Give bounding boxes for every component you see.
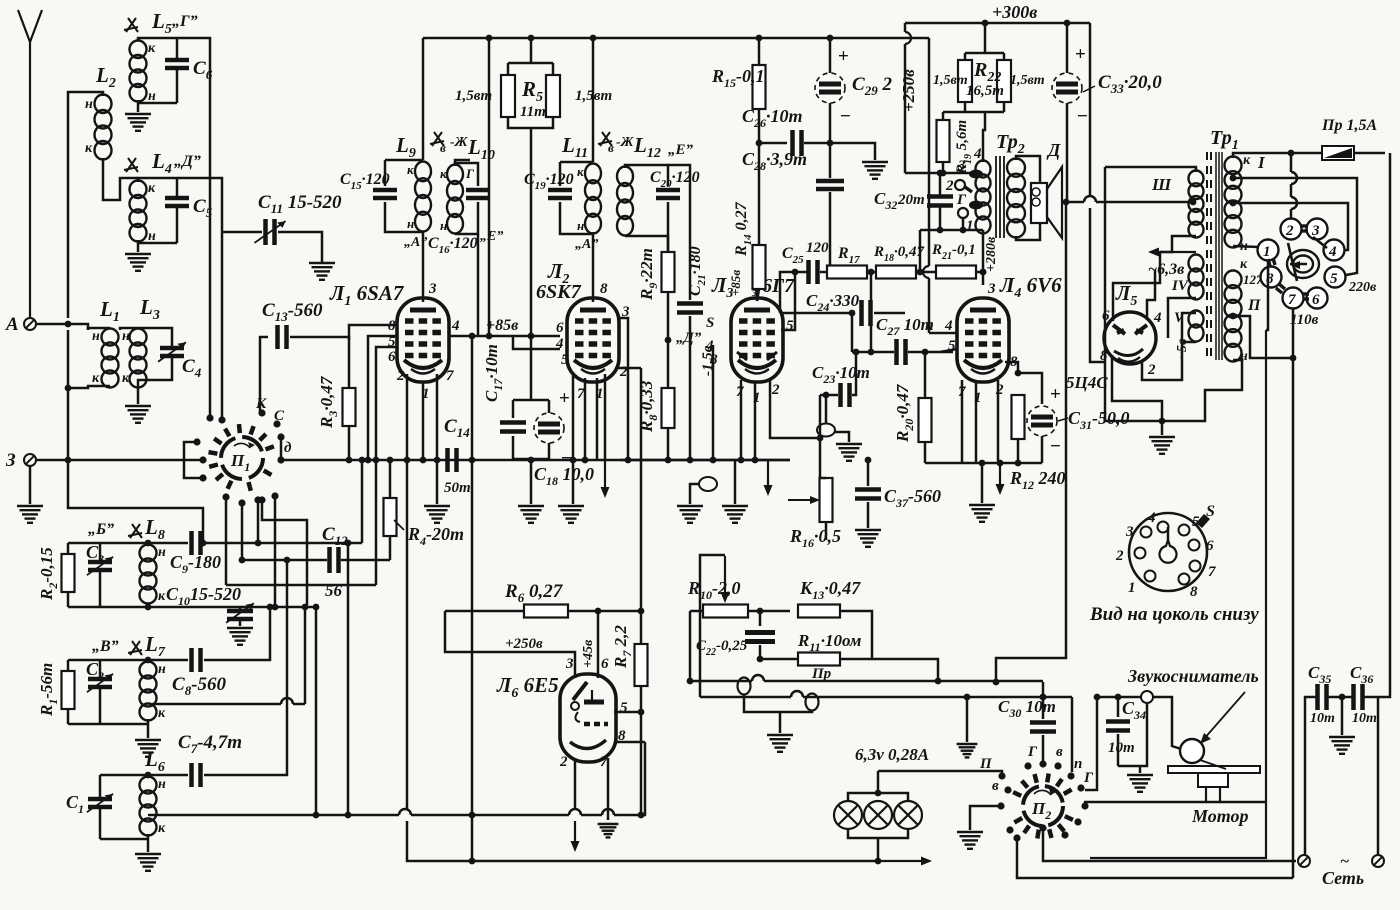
capacitor C25 [809, 260, 818, 284]
capacitor C17 [500, 423, 526, 432]
pickup terminal [1141, 691, 1153, 703]
IF2 left tank [560, 161, 593, 164]
hop on bus 681 [752, 675, 764, 681]
inductor L9 [415, 162, 431, 232]
inductor L11 [585, 164, 601, 234]
capacitor C32 [939, 173, 942, 197]
svg-text:1,5вт: 1,5вт [455, 88, 492, 104]
wire L10 top to AVC [455, 160, 470, 163]
wire R20 bottom [924, 442, 927, 463]
wire R14 to Л3 plate pin [757, 289, 759, 301]
svg-text:к: к [158, 706, 166, 721]
node C10 rail [272, 604, 279, 611]
wire L12 top to C21 [668, 165, 690, 252]
capacitor C15 [373, 190, 397, 198]
wire Л5 pin8 [1112, 355, 1162, 418]
wire lamps stem [877, 771, 880, 793]
tube Л2 6SK7 [567, 298, 619, 382]
wire Л2 pin3 right [617, 318, 628, 460]
wire top rail В [68, 659, 188, 662]
svg-text:4: 4 [973, 146, 982, 162]
wire C18 bottom [548, 443, 551, 459]
svg-text:4: 4 [451, 318, 460, 334]
svg-text:3: 3 [1125, 524, 1134, 540]
wire L7 tap riser [304, 607, 307, 704]
ground L6 [135, 854, 161, 871]
svg-text:Ш: Ш [1151, 175, 1172, 194]
svg-text:к: к [148, 41, 156, 56]
ground Л2 cathode [558, 506, 584, 523]
node L8 top [145, 540, 152, 547]
svg-text:1,5вт: 1,5вт [1010, 73, 1045, 88]
svg-text:„Е”: „Е” [480, 229, 503, 244]
svg-text:в: в [1056, 744, 1063, 760]
wire C12 right [341, 559, 390, 562]
tube Л3 diode plates [737, 352, 777, 360]
wire Л3 pin5 riser [781, 272, 795, 330]
svg-text:Л1 6SА7: Л1 6SА7 [329, 281, 405, 309]
wire C21 down [689, 316, 692, 460]
capacitor C6 [176, 38, 179, 58]
П1 contact dots [193, 409, 284, 506]
wire C11 right [278, 232, 322, 262]
jack on C23 [817, 424, 835, 437]
svg-text:1,5вт: 1,5вт [933, 73, 968, 88]
wire R16 top [820, 438, 826, 478]
inductor L5 [130, 41, 147, 102]
wire III bottom [1160, 236, 1196, 252]
variable capacitor C2 [99, 660, 102, 677]
wire winding I tap y203 [1233, 203, 1348, 250]
ground Л3 [722, 506, 748, 523]
ground 6E5 [598, 824, 619, 837]
svg-text:п: п [1074, 756, 1082, 772]
capacitor C19 [548, 190, 572, 198]
svg-text:7: 7 [446, 368, 454, 384]
svg-text:5: 5 [620, 700, 628, 716]
svg-text:1,5вт: 1,5вт [575, 88, 612, 104]
wire motor feed [1084, 801, 1266, 804]
inductor L10 [447, 165, 463, 234]
node A junction [65, 321, 72, 328]
svg-text:20т: 20т [897, 192, 925, 208]
wire З to ground [29, 466, 32, 504]
wire C27 rail [852, 351, 894, 354]
wire L10 down [477, 234, 480, 336]
svg-text:Сеть: Сеть [1322, 868, 1364, 888]
wire winding I tap y178 [1233, 178, 1357, 275]
ground jack [677, 506, 703, 523]
wire S riser [712, 345, 715, 460]
wire L4 bottom bracket [138, 242, 177, 245]
wire П1 bottom c3 [274, 496, 277, 607]
svg-text:5: 5 [1330, 271, 1338, 287]
wire 6SA7 heater riser [406, 460, 409, 809]
svg-text:+85в: +85в [486, 317, 518, 334]
svg-text:8: 8 [1190, 584, 1198, 600]
wire C12 left [242, 559, 327, 562]
svg-text:Д: Д [1046, 140, 1061, 160]
wire П2 left to ground [970, 806, 1001, 830]
wire lamps to bus [877, 838, 880, 861]
wire C28 down [829, 192, 832, 272]
wire Л3 grid top [756, 286, 759, 301]
wire +85 to pin6 [513, 335, 560, 338]
П2 rotor arrow [1034, 790, 1051, 795]
resistor R10 [690, 610, 703, 613]
svg-text:10т: 10т [1108, 740, 1135, 756]
wire L12 down to R9 [667, 236, 670, 252]
arrow heater IV [1148, 248, 1196, 257]
wire 6E5 pin8 loop [616, 741, 645, 744]
capacitor C9 [192, 531, 201, 555]
node П1 right contact [278, 457, 285, 464]
ground PSU [1149, 437, 1175, 454]
wire П1 bottom contacts down [241, 503, 244, 560]
wire L8 bottom to C10 [148, 606, 240, 609]
inductor L6 [140, 777, 157, 836]
wire Л1 pin5 [368, 336, 397, 460]
tube socket bottom view [1129, 513, 1207, 591]
wire R21 right [976, 271, 983, 274]
resistor R17 [820, 271, 827, 274]
svg-text:~6,3в: ~6,3в [1148, 261, 1184, 278]
resistor R6 [445, 610, 524, 613]
svg-text:S: S [706, 315, 714, 331]
wire screen riser [928, 38, 931, 266]
wire R17 junction down [870, 272, 873, 352]
capacitor C14 [448, 448, 457, 472]
potentiometer R16 [820, 478, 833, 522]
wire right vertical 1105 [1105, 167, 1160, 421]
svg-text:16,5т: 16,5т [966, 83, 1004, 99]
svg-text:5: 5 [786, 318, 794, 334]
arrow 6E5 cathode [571, 821, 580, 852]
wire bus to L11 [592, 38, 595, 162]
IF2 right tank [625, 165, 668, 186]
wire L2 to L4 [103, 158, 138, 200]
wire C4 bottom to L3 ground [138, 358, 172, 404]
ground C23 [836, 444, 862, 461]
wire Л2 pin2 [615, 367, 641, 370]
ground jacks [767, 735, 793, 752]
tube Л3 6Г7 [731, 298, 783, 382]
electrolytic C33 [1066, 23, 1069, 73]
svg-text:в: в [440, 140, 446, 155]
variable capacitor C10 [239, 607, 242, 610]
capacitor C37 [867, 460, 870, 486]
IF2 left bottom [560, 202, 593, 234]
svg-text:3: 3 [565, 656, 574, 672]
variable capacitor C1 [99, 775, 102, 797]
svg-text:Л6 6Е5: Л6 6Е5 [496, 673, 559, 701]
svg-text:-Ж: -Ж [450, 135, 469, 150]
capacitor C12 [330, 547, 339, 573]
wire C18 top [548, 400, 551, 413]
svg-text:+85в: +85в [728, 270, 743, 296]
tuning mark L11-L12 [598, 132, 612, 146]
arrow into R10 [721, 556, 730, 603]
ground C11 [309, 263, 335, 280]
capacitor C34 [1117, 697, 1120, 717]
capacitor C22 [759, 611, 762, 626]
wire П1 bottom c2 [257, 500, 260, 543]
node L8 bottom [145, 604, 152, 611]
Тр1 winding II [1225, 270, 1242, 361]
svg-text:5Ц4С: 5Ц4С [1066, 373, 1108, 392]
node fuse left [1288, 150, 1295, 157]
terminal З (earth) [24, 454, 36, 466]
node earth-A column [65, 457, 72, 464]
inductor L1 [102, 329, 119, 388]
selector links [1268, 226, 1309, 299]
svg-text:н: н [158, 545, 166, 560]
wire Тр2 primary bottom [982, 230, 985, 232]
svg-text:Вид на цоколь снизу: Вид на цоколь снизу [1089, 604, 1259, 625]
wire R12 C31 bracket [1018, 373, 1042, 404]
svg-text:Мотор: Мотор [1191, 806, 1249, 826]
wire C13 to R3 [290, 337, 349, 388]
phone jack [699, 477, 717, 491]
C17 C18 bracket [530, 336, 533, 400]
wire C24 rail [780, 312, 852, 315]
wire IV bottom [1168, 298, 1196, 338]
wire speaker line [1066, 201, 1084, 204]
svg-text:З: З [5, 450, 16, 471]
wire heater bus y815 [148, 814, 399, 817]
capacitor C24 [862, 300, 871, 326]
svg-text:6: 6 [388, 349, 396, 365]
svg-text:2: 2 [1285, 223, 1294, 239]
arrow C11 [254, 221, 285, 243]
C31 pointer [1058, 418, 1068, 421]
svg-text:+45в: +45в [581, 639, 596, 668]
svg-text:7: 7 [1208, 564, 1216, 580]
fuse Пр [1322, 146, 1354, 160]
inductor L12 [617, 167, 633, 236]
svg-text:к: к [407, 162, 414, 177]
inductor L8 [140, 545, 157, 604]
wire C18 to ground [530, 460, 533, 504]
svg-text:+: + [1075, 44, 1086, 65]
resistor R1 [67, 660, 70, 671]
svg-text:S: S [1206, 503, 1215, 520]
wire long riser 472 [471, 336, 474, 861]
wire risers into bus [347, 543, 350, 815]
bus 697 jack [806, 694, 819, 711]
wire Л4 pin8 to R12 [1005, 362, 1018, 373]
transformer Тр2 core [996, 156, 1004, 238]
svg-text:Пр 1,5А: Пр 1,5А [1321, 117, 1377, 134]
ground З [17, 506, 43, 523]
wire R3 to bus [348, 426, 351, 460]
wire L6 to ground [147, 834, 150, 852]
IF1 right bottom [455, 202, 478, 234]
wire C9 rail to bus riser [361, 460, 364, 543]
ground mains filter [1329, 737, 1355, 754]
wire Л1 bottom pins [406, 374, 409, 460]
wire to ground Л2 [572, 460, 575, 504]
svg-text:5: 5 [561, 352, 569, 368]
wire C10 rail right [240, 606, 316, 609]
wire lamps feed to П2 [878, 771, 1002, 776]
wire top rail L6 [100, 774, 188, 777]
capacitor C8 [192, 648, 201, 672]
ground L7 [135, 740, 161, 757]
svg-text:50т: 50т [444, 480, 471, 496]
wire Л1 pin4 to +85 [449, 335, 513, 338]
svg-text:+: + [559, 388, 570, 409]
ground Л4 [969, 505, 995, 522]
svg-text:+: + [1050, 384, 1061, 405]
svg-text:−: − [840, 106, 851, 127]
svg-text:н: н [577, 218, 584, 233]
svg-text:C11 15-520: C11 15-520 [258, 192, 342, 216]
svg-text:н: н [158, 777, 166, 792]
wire L11 to tube [592, 232, 595, 302]
wire terminal 1 stem [962, 218, 965, 230]
wire jack stems [744, 694, 812, 712]
record player enclosure [1090, 330, 1266, 858]
wire L9 to tube grid [422, 232, 425, 302]
svg-text:C7-4,7т: C7-4,7т [178, 732, 242, 756]
resistor R19 [942, 112, 945, 120]
resistor R21 [936, 266, 976, 279]
resistor R5 network [530, 38, 533, 63]
bus 681 jack [738, 678, 751, 695]
wire R8 down [667, 428, 670, 460]
svg-text:11т: 11т [520, 104, 546, 120]
wire П1 top c2 [221, 416, 224, 420]
capacitor C23 [820, 394, 838, 397]
wire top B+ bus [423, 37, 929, 40]
П2 contact dashes [1013, 774, 1073, 839]
svg-text:к: к [577, 164, 584, 179]
svg-text:к: к [148, 181, 156, 196]
svg-text:2: 2 [396, 368, 405, 384]
wire Л4 cathode bottom [1017, 439, 1020, 463]
variable capacitor C11 [266, 219, 275, 245]
wire pickup circuit top [1097, 697, 1181, 749]
П2 contact dots [997, 760, 1088, 841]
wire A column down [67, 330, 70, 460]
IF2 right bottom [625, 202, 668, 236]
svg-text:C8-560: C8-560 [172, 674, 227, 698]
node L7 top [145, 657, 152, 664]
wire C8 right riser [204, 607, 270, 660]
svg-text:+250в: +250в [899, 69, 918, 112]
wire Л2 AVC stub [604, 374, 607, 460]
node R3 bus [346, 457, 353, 464]
switch П2 [1023, 786, 1063, 826]
wire pickup return [1118, 703, 1147, 766]
svg-text:−: − [1050, 436, 1061, 457]
wire L4 top bracket [138, 178, 177, 182]
svg-text:120: 120 [806, 240, 829, 256]
Тр1 winding I [1225, 156, 1242, 247]
wire mains left riser [1305, 697, 1316, 855]
wire bus697 to П2 п contact [1071, 697, 1074, 772]
svg-text:6,3v 0,28А: 6,3v 0,28А [855, 745, 929, 764]
tuning mark L7 [128, 641, 142, 655]
resistor R13 (К13) [798, 605, 840, 618]
band switch П1 [221, 437, 263, 479]
svg-text:к: к [92, 371, 100, 386]
wire +250 feed with hop [904, 23, 907, 32]
wire Г right contact riser [1085, 697, 1097, 790]
svg-text:2: 2 [771, 382, 780, 398]
wire C26 right [804, 142, 830, 145]
capacitor C5 [176, 178, 179, 196]
wire C35C36 ground stem [1341, 697, 1344, 735]
svg-text:П: П [1247, 297, 1261, 314]
resistor R2 [67, 543, 70, 554]
wire R4 top [389, 460, 392, 498]
wire C33 col down [996, 202, 1066, 682]
wire III top [1105, 167, 1196, 172]
capacitor C30 [1042, 697, 1045, 719]
IF1 left tank bottom [385, 202, 423, 232]
wire to L1 [68, 324, 88, 330]
svg-text:„А”: „А” [575, 237, 598, 252]
C17 C18 bottom bracket [513, 458, 549, 461]
svg-text:н: н [440, 218, 447, 233]
selector rotor slash contacts [1288, 237, 1327, 281]
variable capacitor C4 [160, 348, 184, 356]
Тр2 terminals [955, 180, 965, 190]
arrow AVC Л3 [764, 460, 773, 496]
wire +250в feed [445, 611, 575, 678]
capacitor C35 [1318, 684, 1327, 710]
resistor R7 [640, 368, 643, 644]
wire bus 697 [700, 696, 791, 699]
svg-text:к: к [158, 589, 166, 604]
svg-text:4: 4 [944, 318, 953, 334]
ground L5 [125, 114, 151, 131]
wire L3 to C4 [138, 328, 172, 346]
wire Л4 ground stem [981, 463, 984, 503]
wire x68 to C9 rail [68, 460, 203, 543]
arrow to pickup [1200, 692, 1245, 744]
svg-text:1: 1 [966, 218, 974, 234]
wire П1 left loop [184, 442, 203, 478]
svg-text:к: к [440, 166, 447, 181]
wire jack to ground [690, 484, 700, 504]
svg-text:Пр: Пр [811, 666, 832, 682]
tuning mark L8 [128, 524, 142, 538]
wire to PSU ground [1161, 421, 1164, 435]
П1 rotor arrow [234, 443, 250, 448]
R4 pointer [394, 520, 404, 530]
wire C33 down [1066, 103, 1069, 202]
wire R18 junction riser [919, 230, 922, 272]
wire Л2 bottom pins [572, 372, 575, 460]
wire 1090 to Л5 plate [1090, 208, 1104, 362]
C33 pointer [1083, 86, 1095, 92]
wire II bottom [1233, 358, 1242, 360]
capacitor C13 [278, 325, 287, 349]
capacitor C16 [466, 190, 490, 198]
wire bottom rail В [68, 723, 148, 726]
wire to player ground [1139, 766, 1142, 773]
resistor R15 [753, 65, 766, 109]
svg-text:2: 2 [1115, 548, 1124, 564]
wire bus697 left riser [700, 555, 725, 697]
R16 arrow [788, 496, 820, 504]
electrolytic capacitor C31 [1027, 406, 1057, 436]
tuning mark L4 [124, 158, 138, 172]
wire R17-R18 [867, 271, 876, 274]
